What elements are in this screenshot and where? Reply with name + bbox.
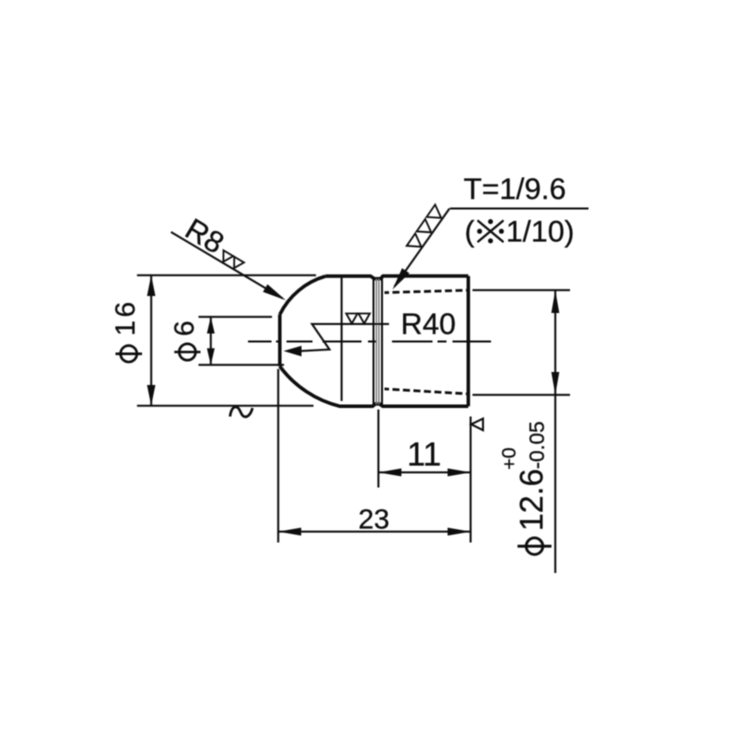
wave symbol (230, 407, 253, 417)
wire centerline (248, 341, 491, 343)
wire dome upper arc R8 (280, 276, 326, 314)
wire part flat nose face R40 (278, 315, 282, 367)
leader T underline (450, 208, 589, 210)
wire hidden bore top dashed (385, 290, 469, 292)
label phi16 (121, 346, 137, 362)
wire band line 1 (373, 278, 375, 405)
svg-text:T=1/9.6: T=1/9.6 (464, 173, 567, 206)
wire extension line 11 left (377, 410, 379, 488)
label phi12.6 with tolerance (526, 538, 543, 555)
svg-text:R40: R40 (401, 308, 456, 341)
dimension 23 line (278, 531, 470, 533)
wire extension line phi12.6 bottom (473, 394, 571, 396)
svg-text:-0.05: -0.05 (526, 421, 549, 469)
finish triangles on R40 leader (346, 314, 370, 324)
dimension phi12.6 line (554, 290, 556, 573)
wire extension line phi6 top (199, 316, 273, 318)
wire tangent line (341, 278, 343, 402)
wire band line 2 (375, 279, 377, 404)
svg-text:23: 23 (358, 504, 389, 535)
finish triangles on T leader (407, 205, 446, 253)
wire band line 3 (378, 279, 380, 404)
wire hidden bore bottom dashed (385, 389, 469, 394)
wire part right edge (467, 276, 471, 406)
finish triangles on R8 leader (219, 250, 244, 271)
wire part outline bottom edge (339, 404, 468, 406)
svg-text:6: 6 (169, 321, 200, 337)
wire dome lower arc R8 (280, 366, 340, 406)
wire part outline top edge (326, 276, 469, 279)
svg-text:+0: +0 (499, 447, 521, 469)
wire extension line right shared (470, 417, 472, 543)
wire extension line phi16 bottom (137, 405, 314, 407)
wire extension line phi16 top (137, 274, 316, 276)
datum triangle mark (471, 419, 483, 431)
svg-text:16: 16 (109, 299, 140, 336)
dimension 11 line (378, 471, 470, 473)
leader R40 zigzag (301, 324, 389, 351)
leader R8 (171, 232, 283, 298)
svg-text:11: 11 (407, 436, 441, 473)
leader T taper (395, 209, 450, 287)
wire extension line phi6 bottom (199, 364, 285, 366)
svg-text:1/10): 1/10) (506, 216, 574, 249)
svg-text:(: ( (465, 216, 475, 249)
wire band line 4 (381, 278, 383, 406)
svg-text:12.6: 12.6 (514, 469, 550, 531)
dimension phi16 line (150, 275, 152, 406)
wire extension line phi12.6 top (473, 289, 571, 291)
label phi6 (179, 344, 195, 360)
dimension phi6 line (210, 317, 212, 365)
wire extension line 23 left (277, 369, 279, 543)
